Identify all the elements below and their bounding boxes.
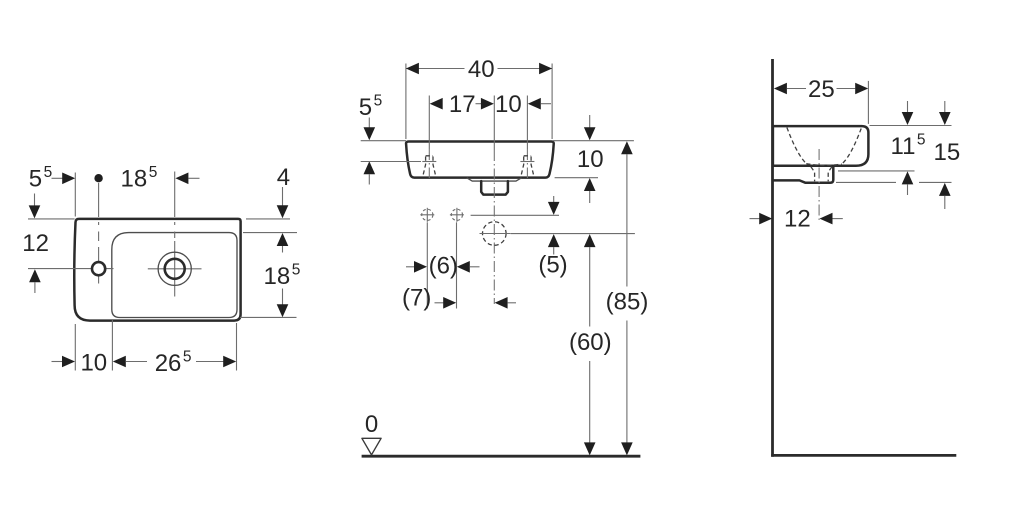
- svg-text:(85): (85): [606, 288, 649, 315]
- drain pipe: [481, 181, 508, 195]
- dim 11-5 down arrow: [907, 101, 909, 113]
- svg-text:10: 10: [577, 146, 604, 173]
- dim 60 up arrow: [584, 234, 596, 247]
- dim 12 arrow left: [820, 213, 833, 225]
- dim 12 down arrow: [34, 194, 36, 206]
- dim 12 up arrow: [29, 269, 41, 282]
- dim 40 left extension: [405, 64, 407, 140]
- wall line: [771, 59, 774, 457]
- dim 5-5 arrow right: [62, 173, 75, 185]
- svg-text:55: 55: [359, 92, 382, 121]
- svg-text:185: 185: [264, 262, 301, 291]
- dim 6 arrow left: [457, 261, 470, 273]
- bowl bottom level line: [838, 170, 915, 172]
- dim 40 line: [406, 68, 552, 70]
- dim 25 arrow right: [837, 88, 856, 90]
- drain boss (side view): [773, 166, 833, 183]
- dim 60 down arrow: [584, 442, 596, 455]
- dim 85 line: [626, 154, 628, 443]
- bowl interior dashed bottom arc: [806, 164, 842, 166]
- svg-text:15: 15: [934, 139, 961, 166]
- svg-text:4: 4: [277, 164, 290, 191]
- dim 26-5 arrow left: [113, 356, 126, 368]
- dim 5 down arrow: [553, 196, 555, 203]
- fixing level line: [471, 214, 559, 216]
- basin top extension right: [870, 125, 952, 127]
- dim 7 arrow right: [435, 302, 445, 304]
- dim 85 down arrow: [621, 442, 633, 455]
- basin body (front view): [406, 142, 554, 178]
- dim 15 up arrow: [939, 183, 951, 196]
- svg-text:17: 17: [449, 91, 476, 118]
- drain crosshair vertical: [174, 241, 176, 297]
- dim 5-5 up arrow: [364, 161, 376, 174]
- dim 17 arrow left: [430, 98, 443, 110]
- floor line: [362, 455, 641, 458]
- svg-text:115: 115: [891, 131, 926, 160]
- svg-text:25: 25: [808, 76, 835, 103]
- dim 60 line: [589, 247, 591, 443]
- dim 15 down arrow: [944, 101, 946, 113]
- dim 10 arrow right: [62, 356, 75, 368]
- svg-text:265: 265: [155, 348, 192, 377]
- dim 5-5 shaft: [52, 177, 64, 179]
- dim terminator dot: [94, 174, 102, 182]
- dim 4 down arrow: [282, 187, 284, 206]
- drain outlet dashed circle: [483, 222, 507, 246]
- bowl bottom edge extension right: [240, 316, 297, 318]
- right tap hole dashed funnel: [521, 156, 534, 177]
- fixing hole left extension: [426, 222, 428, 308]
- zero level triangle: [362, 438, 381, 455]
- dim 12 arrow right: [759, 213, 772, 225]
- bottom extension line left: [74, 324, 76, 371]
- svg-text:12: 12: [22, 230, 49, 257]
- fixing hole left cross: [420, 208, 434, 222]
- dim 10 right up arrow: [584, 178, 596, 191]
- basin body (side view): [773, 126, 869, 166]
- svg-text:(6): (6): [429, 253, 458, 280]
- svg-text:185: 185: [121, 164, 158, 193]
- right tap hole center line: [526, 96, 528, 150]
- svg-text:(60): (60): [569, 329, 612, 356]
- dim 25 arrow left: [774, 83, 787, 95]
- svg-text:10: 10: [80, 350, 107, 377]
- dim 10 right down arrow: [589, 115, 591, 128]
- dim 85 up arrow: [621, 141, 633, 154]
- dim 40 arrow left: [406, 63, 419, 75]
- top edge extension right: [246, 218, 290, 220]
- dim 18-5 arrow shaft: [188, 177, 199, 179]
- bowl interior dashed right curve: [842, 129, 861, 165]
- svg-text:(7): (7): [402, 285, 431, 312]
- basin outer body (top view): [74, 219, 240, 321]
- dim 11-5 up arrow: [902, 171, 914, 184]
- tap hole circle: [92, 262, 105, 275]
- dim 6 shaft left: [406, 266, 414, 268]
- left tap hole dashed funnel: [423, 156, 436, 177]
- front edge extension: [867, 81, 869, 124]
- bowl top edge extension right: [243, 232, 297, 234]
- boss bottom level line: [836, 181, 952, 183]
- basin top extension left: [361, 140, 406, 142]
- fixing hole right extension: [456, 222, 458, 308]
- drain inner circle: [165, 259, 185, 279]
- dim 40 right extension: [551, 64, 553, 140]
- bowl interior dashed left curve: [787, 128, 806, 164]
- tap hole center line: [98, 183, 100, 241]
- tap hole crosshair vertical: [98, 247, 100, 284]
- svg-text:12: 12: [784, 206, 811, 233]
- drain trap dashed right: [828, 167, 832, 182]
- dim 6 arrow right: [414, 261, 427, 273]
- dim 5 up arrow: [548, 234, 560, 247]
- drain crosshair horizontal: [148, 268, 202, 270]
- dim 5-5 extension line: [74, 173, 76, 217]
- svg-text:0: 0: [365, 411, 378, 438]
- bottom extension line right: [236, 323, 238, 371]
- tap hole crosshair horizontal: [28, 268, 114, 270]
- svg-text:10: 10: [495, 91, 522, 118]
- drain center line: [174, 172, 176, 239]
- basin bottom extension right: [555, 177, 598, 179]
- svg-text:40: 40: [468, 56, 495, 83]
- drain channel recess: [467, 178, 522, 181]
- dim 10 arrow: [528, 98, 541, 110]
- drain outer circle: [158, 252, 191, 285]
- dim 26-5 arrow right: [196, 361, 224, 363]
- floor line: [771, 454, 956, 457]
- top edge extension left: [28, 218, 75, 220]
- dim 18-5 right down arrow: [282, 289, 284, 305]
- right tap hole cross bar: [520, 161, 534, 163]
- dim 18-5 arrow left: [175, 173, 188, 185]
- dim 12 shaft left: [750, 218, 760, 220]
- bottom extension line mid: [111, 320, 113, 371]
- drain level line: [511, 233, 635, 235]
- dim 10 shaft: [52, 361, 63, 363]
- svg-text:55: 55: [29, 164, 52, 193]
- left tap hole center line: [428, 96, 430, 150]
- basin inner bowl (top view): [112, 233, 237, 318]
- drain center line (side): [818, 149, 820, 223]
- fixing hole right cross: [450, 208, 464, 222]
- dim 40 arrow right: [539, 63, 552, 75]
- basin top extension right: [553, 140, 634, 142]
- dim 5-5 down arrow: [368, 118, 370, 128]
- dim 17 arrow right: [476, 103, 482, 105]
- drain center line: [493, 96, 495, 151]
- drain trap dashed left: [811, 167, 815, 182]
- dim 7 arrow left: [495, 297, 508, 309]
- left tap hole cross bar: [422, 161, 436, 163]
- tap deck extension left: [361, 161, 421, 163]
- svg-text:(5): (5): [538, 251, 567, 278]
- dim 4 up arrow: [277, 233, 289, 246]
- drain outlet cross bar: [480, 233, 511, 235]
